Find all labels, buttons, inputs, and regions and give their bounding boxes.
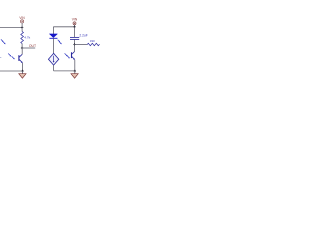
- svg-text:VIN: VIN: [72, 18, 78, 22]
- cropped mark at left edge: [0, 56, 1, 58]
- wire: LED to source I1: [52, 38, 54, 53]
- node OUT junction: [21, 47, 23, 49]
- wire: flag stub left: [21, 23, 23, 28]
- wire: source to bottom rail: [53, 65, 55, 71]
- Q1 light arrow 2: [12, 56, 15, 59]
- node junction (74.5,44.5): [73, 43, 75, 45]
- Q2 emitter arrowhead: [73, 58, 75, 60]
- wire: flag junction down to capacitor: [74, 27, 76, 37]
- wire: bottom-right rail: [54, 70, 75, 72]
- node junction (22,27.6): [21, 26, 23, 28]
- Q1 emitter arrowhead: [21, 61, 23, 63]
- wire: flag stub right: [74, 25, 76, 27]
- wire: bottom-left rail: [0, 70, 23, 72]
- wire: junction to R2: [75, 44, 88, 46]
- wire: rail to resistor: [21, 28, 23, 32]
- wire: OUT node to Q1 collector: [21, 48, 23, 54]
- svg-text:OUT: OUT: [29, 44, 36, 48]
- dependent current source I1: [48, 53, 58, 65]
- wire: junction down to Q2 collector: [74, 45, 76, 52]
- capacitor C1: [70, 36, 79, 38]
- ground G2 stub: [74, 71, 76, 74]
- wire: Q1 emitter down: [22, 63, 24, 71]
- power flag V2: [73, 22, 76, 25]
- ground G2: [71, 74, 78, 79]
- transistor Q2 (phototransistor): [72, 52, 75, 60]
- node junction (74.8,71): [74, 70, 76, 72]
- wire: top-left rail: [0, 27, 22, 29]
- ground G1: [19, 74, 26, 79]
- node junction (22.6,71): [21, 70, 23, 72]
- wire: OUT stub: [22, 47, 35, 49]
- cropped LED arrows at left edge: [1, 39, 3, 41]
- wire: resistor to OUT node: [21, 44, 23, 49]
- LED D1 emission arrow 2: [59, 42, 61, 44]
- I1 arrow: [53, 56, 55, 62]
- resistor R1: [21, 32, 24, 44]
- svg-text:330: 330: [90, 39, 95, 43]
- transistor Q1 (phototransistor): [19, 54, 23, 62]
- LED D1: [49, 34, 57, 38]
- wire: rail corner down to LED: [52, 27, 54, 34]
- power flag V1: [21, 20, 24, 23]
- wire: Q2 emitter down: [74, 60, 76, 71]
- Q2 light arrow 1: [65, 53, 67, 55]
- Q1 light arrow 1: [8, 54, 10, 56]
- resistor R2: [87, 43, 99, 45]
- node junction (74.5,26.8): [73, 26, 75, 28]
- svg-text:4.7k: 4.7k: [24, 36, 30, 40]
- ground G1 stub: [22, 71, 24, 74]
- svg-text:2.2uF: 2.2uF: [79, 33, 87, 37]
- Q2 light arrow 2: [67, 55, 70, 58]
- LED D1 emission arrow 1: [58, 40, 60, 42]
- wire: top-right rail: [53, 26, 74, 28]
- svg-text:VIN: VIN: [19, 16, 25, 20]
- wire: capacitor to junction: [74, 40, 76, 45]
